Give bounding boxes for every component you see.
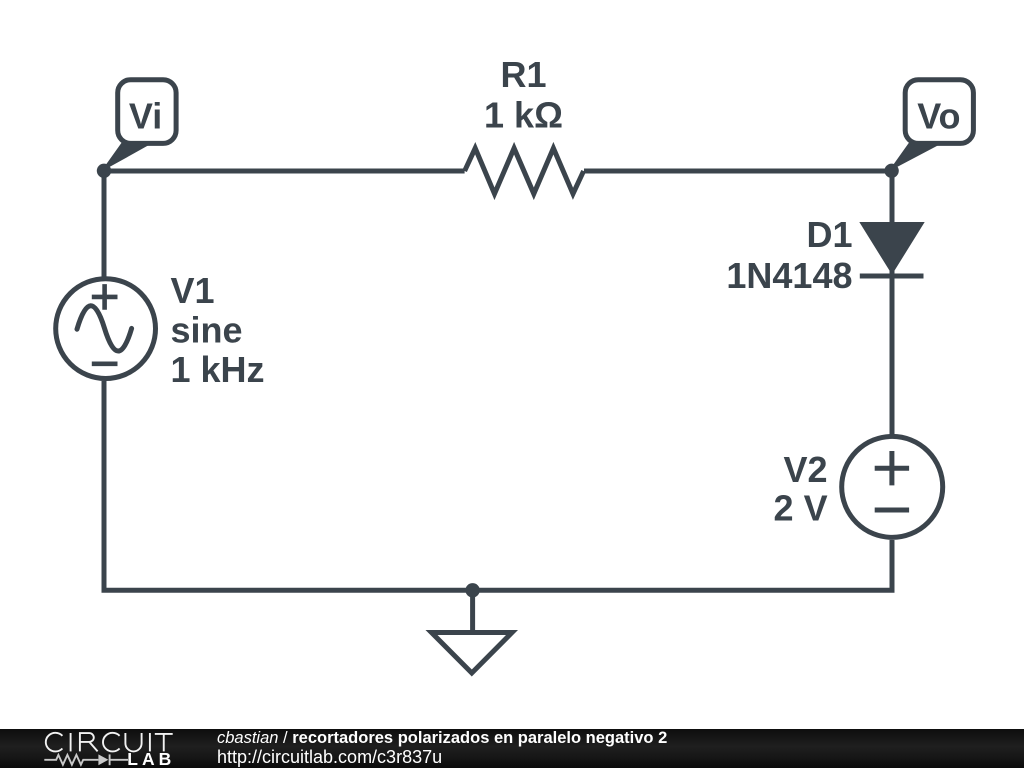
svg-text:Vi: Vi	[129, 95, 162, 136]
wire top rail with resistor body gap	[104, 169, 892, 174]
junction dot ground node	[465, 583, 479, 597]
svg-text:D1: D1	[806, 214, 852, 255]
svg-text:2 V: 2 V	[774, 488, 828, 529]
svg-text:1N4148: 1N4148	[726, 255, 852, 296]
wire right rail upper (Vo node to diode)	[890, 171, 895, 224]
svg-text:1 kΩ: 1 kΩ	[484, 94, 563, 135]
voltage source V1 (sine)	[56, 279, 156, 379]
svg-text:Vo: Vo	[917, 95, 960, 136]
svg-text:1 kHz: 1 kHz	[171, 349, 265, 390]
CircuitLab footer bar	[0, 729, 1024, 768]
junction dot node Vi	[97, 164, 111, 178]
diode D1	[860, 224, 924, 277]
svg-text:R1: R1	[500, 54, 546, 95]
wire right rail lower (V2 to bottom rail)	[890, 540, 895, 590]
svg-text:V2: V2	[784, 449, 828, 490]
footer url line	[217, 748, 442, 767]
wire bottom rail	[102, 588, 895, 593]
ground symbol	[432, 633, 513, 674]
wire right rail middle (diode to V2)	[890, 268, 895, 434]
CircuitLab logo	[0, 729, 200, 768]
footer title line	[217, 730, 667, 746]
svg-text:V1: V1	[171, 270, 215, 311]
node flag Vo	[892, 80, 974, 169]
svg-text:sine: sine	[171, 310, 243, 351]
resistor R1 zigzag	[465, 148, 584, 194]
node flag Vi	[104, 80, 176, 169]
voltage source V2 (DC)	[842, 436, 943, 537]
svg-text:LAB: LAB	[127, 749, 175, 768]
junction dot node Vo	[884, 164, 898, 178]
wire left rail upper (Vi node to V1)	[102, 171, 107, 277]
wire ground stub	[470, 590, 475, 632]
wire left rail lower (V1 to bottom rail)	[102, 381, 107, 590]
